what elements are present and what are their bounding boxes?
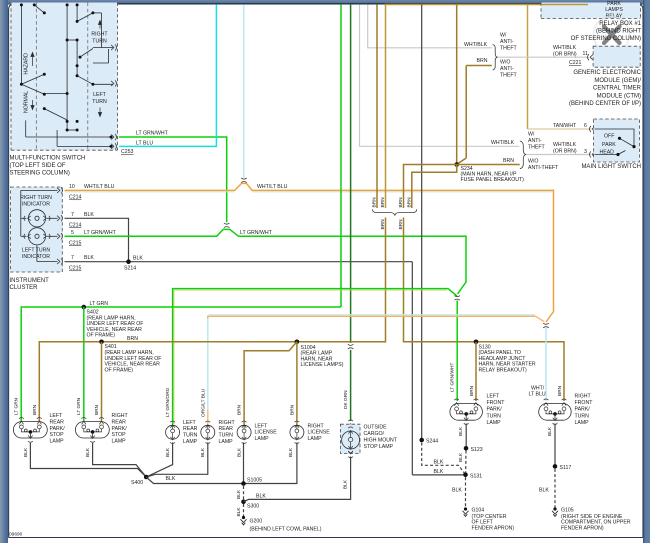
svg-text:5: 5 — [71, 230, 74, 236]
svg-text:BLK: BLK — [256, 494, 266, 500]
svg-text:S214: S214 — [124, 266, 136, 272]
switch internal wiring — [21, 5, 113, 147]
svg-text:BLK: BLK — [343, 479, 349, 489]
svg-text:FUSE PANEL BREAKOUT): FUSE PANEL BREAKOUT) — [461, 177, 525, 183]
svg-text:PARK: PARK — [602, 142, 616, 148]
node S1005 — [241, 481, 246, 486]
svg-text:OF FRAME): OF FRAME) — [87, 333, 116, 339]
V connector right front — [543, 323, 549, 328]
svg-text:HIGH MOUNT: HIGH MOUNT — [364, 438, 398, 444]
svg-text:HEAD: HEAD — [600, 149, 615, 155]
svg-text:BLK: BLK — [23, 447, 29, 457]
svg-text:C214: C214 — [69, 222, 82, 228]
wire BLK pin7 to S214 — [65, 218, 129, 261]
wire BLK left rear turn lamp to S400 — [146, 443, 172, 478]
svg-text:TURN: TURN — [575, 413, 590, 419]
svg-text:LAMP: LAMP — [112, 439, 127, 445]
svg-text:G200: G200 — [250, 519, 263, 525]
svg-text:LAMP: LAMP — [50, 439, 65, 445]
wire BRN S234 to brace — [457, 164, 520, 166]
svg-text:WHT/LT BLU: WHT/LT BLU — [84, 184, 115, 190]
svg-text:TURN: TURN — [219, 433, 234, 439]
svg-text:HAZARD: HAZARD — [24, 53, 30, 75]
svg-text:TURN: TURN — [92, 39, 107, 45]
svg-text:LEFT: LEFT — [93, 92, 107, 98]
wire BLK S117 to G105 (dashed) — [554, 469, 556, 508]
svg-text:PARK/: PARK/ — [112, 426, 128, 432]
svg-text:ANTI-THEFT: ANTI-THEFT — [528, 165, 559, 171]
outside cargo / high mount stop lamp — [340, 420, 397, 458]
svg-text:THEFT: THEFT — [500, 73, 518, 79]
merge brace for GEM wire — [493, 45, 498, 71]
svg-text:BLK: BLK — [452, 488, 462, 494]
wire BRN S234 left to riser x403.5 — [404, 165, 457, 209]
wire BRN merged riser A (to rear lamps feed) — [297, 218, 386, 342]
svg-text:7: 7 — [71, 255, 74, 261]
svg-text:(TOP LEFT SIDE OF: (TOP LEFT SIDE OF — [10, 163, 66, 169]
svg-text:RIGHT: RIGHT — [91, 32, 108, 38]
svg-text:REAR: REAR — [183, 426, 198, 432]
main light switch internals — [595, 129, 635, 155]
node S214 — [126, 259, 131, 264]
svg-text:W/O: W/O — [500, 60, 510, 66]
svg-text:LICENSE: LICENSE — [308, 430, 331, 436]
left rear park/stop lamp — [13, 413, 65, 445]
svg-text:WHT/LT BLU: WHT/LT BLU — [257, 184, 288, 190]
svg-text:REAR: REAR — [112, 419, 127, 425]
park lamps relay box — [541, 1, 641, 20]
svg-text:CARGO/: CARGO/ — [364, 431, 385, 437]
wire LT GRN/WHT down to left front lamp — [456, 301, 458, 402]
svg-text:MULTI-FUNCTION SWITCH: MULTI-FUNCTION SWITCH — [10, 156, 86, 162]
svg-text:WHT/BLK: WHT/BLK — [553, 45, 577, 51]
svg-text:MAIN LIGHT SWITCH: MAIN LIGHT SWITCH — [581, 164, 641, 170]
svg-text:RIGHT: RIGHT — [308, 423, 325, 429]
svg-text:BLK: BLK — [84, 255, 94, 261]
svg-text:S131: S131 — [470, 473, 482, 479]
svg-text:09690: 09690 — [9, 532, 23, 538]
wire BRN rear feed line — [39, 342, 297, 422]
wire BLK S244 to S131 (dashed) — [422, 443, 466, 475]
svg-text:LT GRN/WHT: LT GRN/WHT — [136, 131, 169, 137]
svg-text:BRN: BRN — [557, 385, 563, 396]
svg-text:3: 3 — [584, 149, 587, 155]
svg-text:ANTI-: ANTI- — [500, 39, 514, 45]
window frame: left bar — [0, 0, 8, 543]
wire BRN S234 down/left to riser x411.8 — [412, 165, 457, 209]
svg-text:LEFT TURN: LEFT TURN — [22, 247, 51, 253]
svg-text:BLK: BLK — [200, 447, 206, 457]
svg-text:STOP: STOP — [50, 432, 65, 438]
node S117 — [553, 464, 558, 469]
svg-text:BRN: BRN — [398, 197, 404, 208]
svg-text:LICENSE: LICENSE — [255, 430, 278, 436]
wire BRN vertical (top to S234) — [456, 5, 458, 165]
svg-text:LT GRN: LT GRN — [76, 397, 82, 415]
cluster internal wiring — [21, 190, 58, 261]
svg-text:GENERIC ELECTRONIC: GENERIC ELECTRONIC — [573, 70, 641, 76]
svg-text:S400: S400 — [131, 480, 143, 486]
wire BRN merged riser B (to front lamps feed) — [404, 218, 565, 402]
wire BLK vertical (top to S244) — [421, 5, 423, 441]
wire BLK right rear lamp to S400 — [93, 443, 147, 477]
svg-text:STOP: STOP — [112, 432, 127, 438]
svg-text:PARK: PARK — [607, 1, 621, 7]
svg-text:LEFT: LEFT — [183, 420, 197, 426]
GEM box — [593, 46, 640, 67]
svg-text:LAMP: LAMP — [575, 420, 590, 426]
svg-text:TURN: TURN — [92, 99, 107, 105]
wire LT GRN vertical (to S402 line) — [340, 5, 342, 308]
switch border exit marks — [111, 44, 116, 50]
node S123 — [464, 446, 469, 451]
svg-text:6: 6 — [584, 123, 587, 129]
wire BRN vertical 1 (from top, ends at brace) — [376, 5, 378, 209]
svg-text:LT GRN/WHT: LT GRN/WHT — [450, 363, 456, 392]
wire WHT/LT BLU row stripe (pale cyan under orange) — [65, 191, 235, 193]
svg-text:W/O: W/O — [528, 159, 538, 165]
svg-text:(BEHIND CENTER OF I/P): (BEHIND CENTER OF I/P) — [569, 101, 641, 107]
left rear turn lamp — [166, 420, 198, 445]
wire WHT/BLK (OR BRN) into GEM pin 11 — [497, 56, 589, 58]
wire LT BLU from switch — [119, 5, 216, 147]
svg-text:BRN: BRN — [127, 336, 138, 342]
svg-text:(OR BRN): (OR BRN) — [553, 149, 577, 155]
svg-text:BLK: BLK — [539, 488, 549, 494]
svg-text:BRN: BRN — [289, 404, 295, 415]
svg-text:FRONT: FRONT — [487, 400, 506, 406]
node S1004 — [295, 340, 300, 345]
svg-text:LAMPS: LAMPS — [605, 7, 623, 13]
svg-text:BLK: BLK — [458, 426, 464, 436]
svg-text:INSTRUMENT: INSTRUMENT — [10, 278, 50, 284]
wire BLK from S214 riser to S131 — [412, 474, 465, 476]
svg-text:C215: C215 — [69, 240, 82, 246]
svg-text:CENTRAL TIMER: CENTRAL TIMER — [593, 86, 642, 92]
svg-text:BLK: BLK — [84, 212, 94, 218]
svg-text:BRN: BRN — [372, 197, 378, 208]
svg-text:RIGHT: RIGHT — [112, 413, 129, 419]
node S130 — [474, 340, 479, 345]
svg-text:S300: S300 — [247, 504, 259, 510]
svg-text:BLK: BLK — [236, 489, 242, 499]
wire LT GRN/WHT from switch — [119, 137, 227, 222]
wire BLK S131 to G104 (dashed) — [465, 477, 467, 508]
svg-text:ANTI-: ANTI- — [528, 138, 542, 144]
V connector left front (green) — [454, 296, 460, 301]
svg-text:7: 7 — [71, 212, 74, 218]
svg-text:OF FRAME): OF FRAME) — [105, 367, 134, 373]
right front park/turn lamp — [539, 394, 593, 426]
ground G105 — [552, 507, 558, 516]
svg-text:RIGHT: RIGHT — [219, 420, 236, 426]
connector on WHT/LT BLU tent — [241, 178, 247, 183]
left turn indicator bulb U2 — [22, 228, 51, 260]
svg-text:DK GRN: DK GRN — [343, 390, 349, 409]
svg-text:TURN: TURN — [183, 433, 198, 439]
wire BLK right rear turn lamp to S400 — [146, 443, 208, 478]
svg-text:FRONT: FRONT — [575, 400, 594, 406]
svg-text:C214: C214 — [69, 195, 82, 201]
right license lamp — [290, 421, 330, 444]
svg-text:G104: G104 — [472, 508, 485, 514]
wire BLK right license lamp to S1005 — [244, 443, 297, 484]
node S300 — [241, 500, 246, 505]
svg-text:LICENSE LAMPS): LICENSE LAMPS) — [301, 362, 344, 368]
svg-text:BLK: BLK — [166, 476, 176, 482]
node S244 — [419, 438, 424, 443]
svg-text:MODULE (GEM)/: MODULE (GEM)/ — [594, 78, 641, 84]
node S401 — [99, 340, 104, 345]
svg-text:(OR BRN): (OR BRN) — [553, 51, 577, 57]
wire BLK left front lamp to S123 — [465, 424, 467, 449]
svg-text:RELAY BREAKOUT): RELAY BREAKOUT) — [479, 368, 528, 374]
BRN option wire from S234 riser — [466, 65, 492, 67]
wire WHT/LT BLU down to right front lamp — [545, 328, 547, 401]
svg-text:BRN: BRN — [32, 404, 38, 415]
normal arrow — [31, 100, 34, 110]
svg-text:10: 10 — [69, 184, 75, 190]
svg-text:C215: C215 — [69, 266, 82, 272]
svg-text:BLK: BLK — [547, 426, 553, 436]
svg-text:S244: S244 — [426, 439, 438, 445]
svg-text:BLK: BLK — [236, 507, 242, 517]
window frame: top bar — [0, 0, 650, 5]
svg-text:BRN: BRN — [469, 385, 475, 396]
wire BLK pin7 C215 to S214 and right — [65, 261, 413, 263]
node S131 — [463, 473, 468, 478]
svg-text:ORG/LT BLU: ORG/LT BLU — [200, 388, 206, 417]
svg-text:G105: G105 — [561, 508, 574, 514]
relay box watermark — [594, 17, 630, 53]
window frame: right bar — [643, 0, 650, 543]
wire ORG/LT BLU horizontal to V connector right — [209, 314, 536, 316]
svg-text:THEFT: THEFT — [500, 46, 518, 52]
left front park/turn lamp — [450, 394, 505, 426]
svg-text:OUTSIDE: OUTSIDE — [364, 425, 388, 431]
wire WHT/BLK vertical 2 (to GEM) — [368, 5, 492, 48]
svg-text:PARK/: PARK/ — [575, 407, 591, 413]
svg-text:W/: W/ — [500, 33, 507, 39]
svg-text:BRN: BRN — [503, 158, 514, 164]
svg-text:LAMP: LAMP — [308, 436, 323, 442]
svg-text:BRN: BRN — [237, 404, 243, 415]
wire BLK cargo lamp to S300 — [244, 457, 351, 502]
C253 exits — [111, 134, 116, 140]
svg-text:BRN: BRN — [94, 404, 100, 415]
svg-text:BLK: BLK — [434, 459, 444, 465]
svg-text:RIGHT TURN: RIGHT TURN — [20, 195, 52, 201]
svg-text:LT BLU: LT BLU — [136, 141, 153, 147]
hazard arrow — [31, 53, 34, 67]
svg-text:ANTI-: ANTI- — [500, 66, 514, 72]
svg-text:WHT/BLK: WHT/BLK — [491, 140, 515, 146]
left license lamp — [237, 421, 277, 444]
ground G200 — [241, 516, 247, 525]
cluster pin arrows — [57, 187, 62, 193]
right rear turn lamp — [201, 420, 236, 445]
svg-text:BLK: BLK — [85, 447, 91, 457]
node S400 — [144, 475, 149, 480]
merge brace at main light switch — [520, 141, 526, 169]
switch contact dots — [20, 3, 113, 148]
svg-text:REAR: REAR — [219, 426, 234, 432]
svg-text:THEFT: THEFT — [528, 145, 546, 151]
svg-text:C221: C221 — [569, 60, 582, 66]
svg-text:BLK: BLK — [288, 447, 294, 457]
wire WHT/BLK vertical 1 (to main light switch) — [360, 5, 520, 147]
wire DK GRN vertical (to cargo lamp) — [350, 5, 352, 344]
svg-text:LEFT: LEFT — [50, 413, 64, 419]
multi-function switch box — [11, 3, 118, 151]
wire BLK S400 to S1005 — [146, 477, 243, 484]
wire TAN/WHT drop to main light switch pin 6 — [527, 5, 529, 130]
bottom border line of diagram — [9, 537, 643, 539]
wire LT GRN horizontal (S402 line) — [21, 307, 341, 422]
wire BRN/TAN vertical 2 + top feed line to relay — [386, 5, 589, 209]
svg-text:INDICATOR: INDICATOR — [22, 254, 50, 260]
svg-text:STEERING COLUMN): STEERING COLUMN) — [10, 171, 70, 177]
svg-text:BLK: BLK — [434, 469, 444, 475]
svg-text:LT GRN/ORG: LT GRN/ORG — [165, 387, 171, 417]
main light switch box — [594, 119, 640, 162]
svg-text:W/: W/ — [528, 132, 535, 138]
instrument cluster box — [11, 187, 63, 272]
svg-text:LAMP: LAMP — [487, 420, 502, 426]
svg-text:LAMP: LAMP — [255, 436, 270, 442]
svg-text:STOP LAMP: STOP LAMP — [364, 444, 394, 450]
svg-text:CLUSTER: CLUSTER — [10, 285, 39, 291]
wire WHT/LT BLU row (orange) with inline connector tent — [65, 183, 554, 322]
wire BLK left license lamp to S1005 — [243, 443, 245, 484]
S234 node — [454, 162, 459, 167]
svg-text:BLK: BLK — [458, 452, 464, 462]
wire BLK left rear lamp to S400 — [30, 443, 146, 477]
svg-text:LT GRN: LT GRN — [14, 397, 20, 415]
svg-text:BRN: BRN — [477, 58, 488, 64]
svg-text:BLK: BLK — [236, 447, 242, 457]
svg-text:WHT/BLK: WHT/BLK — [553, 142, 577, 148]
group brace (4 into 2) — [372, 209, 416, 215]
svg-text:LAMP: LAMP — [183, 439, 198, 445]
svg-text:BRN: BRN — [380, 197, 386, 208]
svg-text:RIGHT: RIGHT — [575, 394, 592, 400]
svg-text:OFF: OFF — [604, 134, 614, 140]
svg-text:S123: S123 — [471, 447, 483, 453]
svg-text:TAN/WHT: TAN/WHT — [553, 123, 577, 129]
svg-text:TURN: TURN — [487, 413, 502, 419]
svg-text:LT GRN/WHT: LT GRN/WHT — [240, 230, 273, 236]
right turn indicator bulb U1 — [20, 195, 52, 227]
svg-text:BRN: BRN — [406, 197, 412, 208]
svg-text:LT GRN/WHT: LT GRN/WHT — [84, 230, 117, 236]
svg-text:OF STEERING COLUMN): OF STEERING COLUMN) — [571, 36, 641, 42]
svg-text:FENDER APRON): FENDER APRON) — [472, 526, 515, 532]
wire WHT/LT BLU vertical from top — [243, 5, 245, 178]
svg-text:LT BLU: LT BLU — [529, 392, 546, 398]
svg-text:LEFT: LEFT — [255, 423, 269, 429]
svg-text:S1005: S1005 — [247, 478, 262, 484]
wire BLK S123 to S131 (dashed) — [465, 451, 467, 474]
svg-text:WHT/BLK: WHT/BLK — [464, 42, 488, 48]
svg-text:11: 11 — [583, 51, 588, 57]
svg-text:INDICATOR: INDICATOR — [22, 202, 50, 208]
wire into main light switch pin 3 — [526, 154, 591, 156]
svg-text:PARK/: PARK/ — [50, 426, 66, 432]
wire LT GRN/WHT row with tent connector — [65, 229, 467, 294]
svg-text:(BEHIND RIGHT: (BEHIND RIGHT — [596, 28, 641, 34]
wire BLK S1005 to S300 (dashed) — [243, 486, 245, 500]
node S402 — [82, 305, 87, 310]
svg-text:RELAY BOX #1: RELAY BOX #1 — [599, 21, 641, 27]
svg-text:NORMAL: NORMAL — [24, 91, 30, 113]
svg-text:BLK: BLK — [133, 256, 143, 262]
svg-text:BLK: BLK — [165, 447, 171, 457]
svg-text:LT GRN: LT GRN — [90, 301, 109, 307]
svg-text:S117: S117 — [560, 465, 572, 471]
svg-text:REAR: REAR — [50, 419, 65, 425]
ground G104 — [463, 507, 469, 516]
svg-text:FENDER APRON): FENDER APRON) — [561, 526, 604, 532]
connector on DK GRN — [348, 344, 354, 349]
svg-text:LEFT: LEFT — [487, 394, 501, 400]
wire BLK S300 to G200 (dashed) — [243, 504, 245, 517]
svg-text:(BEHIND LEFT COWL PANEL): (BEHIND LEFT COWL PANEL) — [250, 527, 322, 533]
svg-text:LAMP: LAMP — [219, 439, 234, 445]
svg-text:PARK/: PARK/ — [487, 407, 503, 413]
svg-text:MODULE (CTM): MODULE (CTM) — [597, 93, 641, 99]
wire LT GRN/ORG horizontal to V connector — [174, 289, 447, 291]
wire BLK right front lamp to S117 — [554, 424, 556, 467]
svg-text:C253: C253 — [121, 149, 134, 155]
connector on LT GRN/WHT tent — [224, 223, 230, 228]
right rear park/stop lamp — [75, 413, 128, 445]
